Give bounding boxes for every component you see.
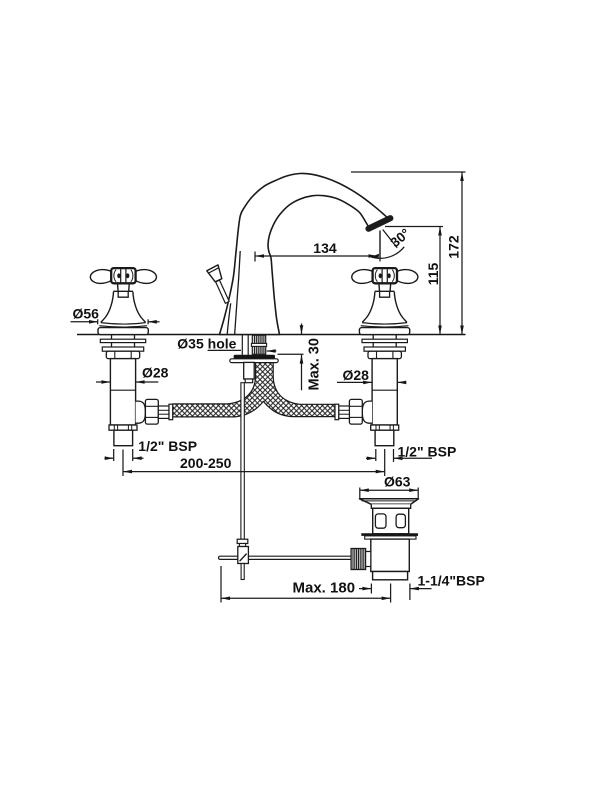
stem [118, 283, 130, 291]
dim 1-1/4 BSP [370, 584, 372, 594]
svg-text:Ø35 hole: Ø35 hole [177, 336, 236, 352]
arrows dim O28 left [101, 380, 110, 384]
drain upper body with overflow windows [373, 508, 409, 534]
bonnet top and notch [113, 290, 133, 292]
svg-text:1/2" BSP: 1/2" BSP [398, 443, 457, 459]
flexible braided hoses (Y-shaped pair) [173, 362, 335, 417]
svg-text:Ø63: Ø63 [384, 474, 411, 490]
arrows dim 200-250 [123, 470, 132, 474]
clamp lower rod [241, 564, 244, 580]
arrowheads [89, 172, 464, 600]
bell [101, 292, 114, 323]
svg-text:115: 115 [425, 263, 441, 286]
lift rod clamp: cap [237, 539, 248, 543]
dim Ø28 right lines [337, 381, 372, 383]
clamp neck [239, 544, 245, 547]
spout body (gooseneck) [220, 173, 390, 334]
dim Ø63 [359, 488, 361, 500]
svg-text:Ø28: Ø28 [343, 367, 370, 383]
drain lower body [371, 539, 410, 571]
spout top extension line [351, 171, 466, 173]
svg-text:Ø28: Ø28 [142, 364, 169, 380]
30 degree slant leg [383, 230, 398, 248]
rod guide tube [241, 335, 243, 362]
arrows dim 115 [438, 227, 442, 236]
svg-text:1/2" BSP: 1/2" BSP [138, 438, 197, 454]
30 degree arc [372, 247, 405, 259]
svg-text:1-1/4"BSP: 1-1/4"BSP [418, 572, 485, 588]
dim 1/2 BSP left [105, 457, 114, 459]
svg-text:200-250: 200-250 [180, 455, 232, 471]
clamp body with screw [238, 547, 249, 564]
dim Ø28 left lines [96, 381, 110, 383]
spout outlet (dark) [369, 218, 391, 229]
arrows dim O56 [89, 320, 98, 324]
dim 134 line [255, 255, 378, 257]
dim 1/2 BSP right [366, 457, 376, 459]
pop-up rod housing [244, 362, 255, 379]
packing nut [106, 351, 139, 358]
Ø35 hole leader [208, 349, 241, 351]
arrows dim Max.30 [300, 325, 304, 334]
left ear [90, 270, 112, 284]
arrows dim 1/2 BSP right [367, 457, 376, 461]
dimension texts [73, 226, 462, 490]
horizontal pivot rod [219, 556, 351, 559]
arrows dim 172 [460, 172, 464, 181]
1/2 inch BSP tail [114, 430, 133, 446]
svg-text:172: 172 [446, 235, 462, 259]
clamping flange [230, 359, 278, 363]
outlet level extension line [385, 226, 443, 228]
hose connector elbow [136, 401, 146, 423]
svg-text:Max. 180: Max. 180 [293, 579, 356, 596]
arrows dim 1-1/4 BSP [362, 587, 371, 591]
right handle (cross handle) [352, 268, 418, 335]
30 degree vertical leg [379, 231, 381, 259]
pop-up lift knob [207, 265, 222, 282]
rod knurled connector [351, 549, 366, 570]
right valve body (mirrored) [335, 335, 407, 446]
dim Ø56 arrow lines [71, 321, 98, 323]
svg-text:Ø56: Ø56 [73, 305, 100, 321]
dim 172 line [461, 172, 463, 335]
dim 200-250 [122, 450, 124, 477]
arrows dim Max.180 [221, 597, 230, 601]
lift rod continuation to deck [227, 303, 231, 334]
spout threaded shank [252, 335, 265, 354]
arrows dim O28 right [363, 381, 372, 385]
arrows dim 134 [255, 254, 264, 258]
svg-text:Max. 30: Max. 30 [307, 338, 323, 390]
drain flange plate (dark edge) [361, 533, 418, 536]
dim 115 line [439, 227, 441, 335]
drain waste flange funnel [360, 499, 419, 505]
svg-text:134: 134 [313, 240, 337, 256]
pop-up lift rod (upper, angled) [216, 280, 230, 303]
hub [111, 268, 135, 283]
arrow O35 hole leader [267, 349, 276, 353]
valve cylinder [110, 359, 135, 425]
shank nut band [251, 343, 266, 346]
arrows dim O63 [360, 488, 369, 492]
spout inner-left contour line [235, 251, 241, 334]
Max.30 dim lines [301, 324, 303, 335]
base block [98, 328, 148, 335]
drain tailpiece [373, 572, 408, 580]
deck mounting surface line [77, 334, 466, 336]
left handle (cross handle) [90, 268, 156, 335]
drain collar [371, 504, 410, 508]
arrow 30 degree arc [371, 254, 380, 259]
right ear [135, 270, 157, 284]
outlet extension vertical [379, 231, 381, 262]
bottom flange [109, 425, 137, 430]
dim Max.180 [220, 566, 222, 603]
arrows dim 1/2 BSP left [105, 456, 114, 460]
left valve body [100, 335, 172, 446]
lift rod (below housing) [241, 383, 244, 540]
rubber washer (dark) [234, 355, 275, 359]
